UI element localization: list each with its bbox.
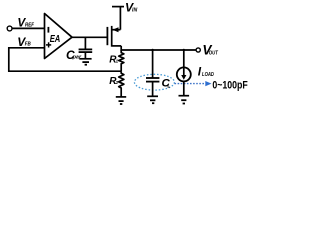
ground under ILOAD [179,96,190,104]
junction node at ILOAD tap [183,49,185,51]
wire CL tap [152,50,154,78]
resistor R2 [119,71,124,97]
label VREF [17,16,34,30]
wire VFB to EA non-inverting input [8,47,44,49]
label VOUT [202,43,218,58]
wire feedback bottom horizontal [8,70,121,72]
ground under R2 [116,97,126,104]
capacitor Cpar [79,49,93,52]
svg-text:par: par [72,55,82,61]
wire Cpar tap [84,37,86,49]
highlight ellipse around CL (blue dashed) [134,74,174,90]
wire CL to ground [152,82,154,97]
svg-text:2: 2 [115,80,119,86]
svg-text:L: L [167,83,170,89]
svg-text:1: 1 [116,58,119,64]
svg-text:OUT: OUT [209,51,219,57]
label CL [162,77,171,89]
svg-text:0~100pF: 0~100pF [212,79,248,91]
junction node at CL tap [151,49,153,51]
wire EA output to gate [72,36,107,38]
svg-text:LOAD: LOAD [202,72,214,78]
power VIN supply bar [112,6,124,8]
wire feedback left vertical [8,47,10,72]
op-amp EA inverting input mark [47,27,49,33]
svg-text:REF: REF [25,22,35,28]
svg-text:EA: EA [50,34,61,45]
node VREF input terminal [7,26,12,31]
op-amp EA non-inverting input mark [46,42,51,47]
label ILOAD [198,65,215,79]
resistor R1 [119,50,124,71]
annotation dashed arrow from ellipse to 0~100pF label [175,81,212,86]
label R2 [109,76,118,87]
label VIN [125,1,138,15]
transistor M1 PMOS pass device [107,26,121,47]
wire drain down to output rail [120,46,122,51]
label R1 [109,54,118,65]
wire output rail [121,49,196,51]
ground under Cpar [79,59,91,65]
ground under CL [147,96,158,103]
label 0~100pF (blue) [212,79,248,91]
label EA [50,34,61,45]
wire VIN bar to source [119,7,121,30]
capacitor CL [146,78,159,82]
label Cpar [66,48,82,62]
wire Cpar to ground [84,52,86,59]
wire ILOAD to ground [183,81,185,95]
label VFB [17,35,31,49]
wire VREF to EA inverting input [12,27,45,29]
svg-text:IN: IN [132,8,138,14]
op-amp EA [45,14,73,59]
node VOUT terminal [196,48,200,52]
svg-text:FB: FB [25,42,31,48]
current source ILOAD [177,50,191,81]
